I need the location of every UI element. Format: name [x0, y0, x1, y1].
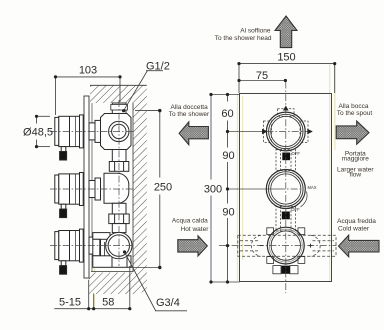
svg-text:flow: flow — [350, 172, 362, 179]
svg-text:75: 75 — [256, 70, 268, 82]
svg-text:60: 60 — [221, 108, 233, 120]
svg-text:58: 58 — [102, 297, 114, 309]
svg-text:Acqua fredda: Acqua fredda — [337, 218, 376, 225]
svg-text:OFF: OFF — [291, 207, 300, 212]
svg-text:300: 300 — [204, 184, 222, 196]
svg-text:Al soffione: Al soffione — [240, 27, 271, 34]
svg-text:maggiore: maggiore — [342, 155, 369, 162]
svg-text:G1/2: G1/2 — [146, 61, 170, 73]
svg-text:150: 150 — [277, 51, 295, 63]
svg-text:To the shower: To the shower — [169, 111, 210, 118]
svg-text:MAX: MAX — [308, 185, 317, 190]
svg-text:Cold water: Cold water — [338, 226, 370, 233]
svg-text:G3/4: G3/4 — [156, 297, 180, 309]
svg-text:Alla doccetta: Alla doccetta — [170, 104, 208, 111]
svg-text:To the shower head: To the shower head — [215, 35, 272, 42]
svg-text:250: 250 — [154, 182, 172, 194]
svg-text:90: 90 — [222, 207, 234, 219]
svg-text:Acqua calda: Acqua calda — [172, 217, 208, 224]
svg-text:5-15: 5-15 — [59, 297, 81, 309]
svg-text:Ø48,5: Ø48,5 — [23, 127, 53, 139]
svg-text:Hot water: Hot water — [181, 226, 210, 233]
svg-text:To the spout: To the spout — [337, 110, 373, 117]
svg-text:103: 103 — [79, 65, 97, 77]
svg-text:OFF: OFF — [292, 151, 301, 156]
svg-text:Alla bocca: Alla bocca — [339, 103, 369, 110]
svg-text:90: 90 — [222, 150, 234, 162]
